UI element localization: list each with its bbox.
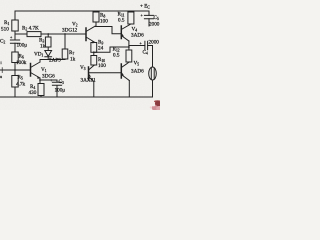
node R9 bottom junction bbox=[93, 51, 95, 53]
capacitor C5 bbox=[144, 15, 153, 18]
svg-text:100μ: 100μ bbox=[17, 43, 28, 49]
resistor R1 bbox=[12, 20, 18, 31]
transistor V2 bbox=[85, 28, 87, 41]
svg-text:100k: 100k bbox=[16, 60, 27, 66]
wire R8 bottom to V2 collector bbox=[95, 22, 97, 27]
wire R12 bottom to V5 collector bbox=[128, 61, 130, 63]
wire top-left corner down to R1 bbox=[14, 11, 16, 20]
speaker BL bbox=[149, 67, 157, 80]
wire V5 emitter to ground bbox=[128, 81, 130, 98]
wire R7 top lead bbox=[64, 34, 66, 49]
wire V4 emitter riser bbox=[128, 41, 130, 50]
wire V1 emitter to R4 bbox=[39, 78, 41, 84]
resistor R7 bbox=[62, 49, 68, 59]
wire R2 to V2 base bbox=[41, 33, 86, 35]
wire R9 bottom node bbox=[94, 47, 129, 52]
transistor V3 bbox=[88, 67, 90, 80]
wire top rail bbox=[15, 10, 149, 12]
resistor R2 bbox=[27, 32, 41, 37]
wire R10 bottom to V3 collector bbox=[93, 64, 95, 67]
wire R10 top lead bbox=[93, 52, 95, 55]
svg-text:2AP9: 2AP9 bbox=[49, 58, 61, 64]
diode VD1 bbox=[45, 51, 52, 57]
wire C5 bottom stub bbox=[148, 19, 150, 26]
svg-text:3AX81: 3AX81 bbox=[81, 78, 97, 84]
capacitor C3 bbox=[52, 80, 61, 97]
wire C4 to speaker rail bbox=[148, 46, 153, 68]
wire input bbox=[0, 69, 31, 71]
resistor R10 bbox=[91, 56, 97, 66]
node emitter junction bbox=[39, 79, 41, 81]
node R7 junction bbox=[64, 33, 66, 35]
capacitor C2 bbox=[10, 40, 19, 43]
resistor R5 bbox=[12, 76, 18, 88]
svg-text:0.5: 0.5 bbox=[113, 53, 120, 59]
resistor R3 bbox=[45, 37, 51, 47]
svg-text:3DG12: 3DG12 bbox=[62, 28, 78, 34]
wire V3 base to V5 base bbox=[89, 72, 122, 74]
watermark red logo bbox=[150, 100, 162, 111]
svg-text:510: 510 bbox=[1, 27, 9, 33]
wire R6 to input node bbox=[14, 63, 16, 71]
wire output to C4 bbox=[129, 45, 145, 47]
svg-text:430: 430 bbox=[29, 90, 37, 96]
svg-text:100: 100 bbox=[98, 63, 106, 69]
wire V2 collector to V4 base bbox=[96, 27, 122, 34]
capacitor C4 bbox=[145, 41, 148, 50]
wire input node to R5 bbox=[14, 70, 16, 76]
resistor R9 bbox=[91, 43, 97, 53]
resistor R11 bbox=[128, 12, 134, 24]
wire V1 collector riser bbox=[39, 60, 41, 63]
wire R4 to ground bbox=[40, 96, 42, 98]
svg-text:4.7k: 4.7k bbox=[16, 82, 25, 88]
paper background bbox=[0, 0, 160, 110]
wire VD1 to node B bbox=[47, 57, 49, 60]
wire R3 to VD1 bbox=[47, 47, 49, 51]
resistor R6 bbox=[12, 52, 18, 63]
svg-text:R2 4.7K: R2 4.7K bbox=[22, 26, 39, 32]
svg-text:0.5: 0.5 bbox=[118, 18, 125, 24]
node input junction bbox=[14, 69, 16, 71]
svg-text:100μ: 100μ bbox=[55, 88, 66, 94]
wire C2 to R6 bbox=[14, 43, 16, 52]
svg-text:u: u bbox=[0, 74, 2, 79]
node output junction bbox=[128, 46, 130, 48]
wire node A branch to R2 bbox=[15, 33, 27, 35]
transistor V4 bbox=[120, 26, 122, 39]
resistor R4 bbox=[38, 84, 44, 96]
transistor V5 bbox=[120, 64, 122, 78]
wire R8 top bbox=[95, 11, 97, 12]
wire V3 emitter to ground bbox=[93, 82, 95, 98]
svg-text:2000: 2000 bbox=[149, 40, 160, 46]
wire speaker to ground bbox=[152, 80, 154, 97]
wire C5 corner from top rail bbox=[148, 11, 150, 15]
wire node B horizontal bbox=[40, 59, 65, 61]
wire R5 to ground rail bbox=[14, 87, 16, 97]
svg-text:3DG6: 3DG6 bbox=[42, 74, 55, 80]
svg-text:3AD6: 3AD6 bbox=[131, 33, 144, 39]
node R3 junction bbox=[47, 33, 49, 35]
svg-text:100: 100 bbox=[100, 19, 108, 25]
wire R11 top bbox=[130, 11, 132, 12]
wire ground rail bbox=[0, 96, 153, 98]
svg-text:1k: 1k bbox=[40, 44, 46, 50]
svg-text:2000: 2000 bbox=[149, 22, 160, 28]
wire R1 bottom to C2 bbox=[14, 31, 16, 40]
svg-text:1k: 1k bbox=[70, 57, 76, 63]
svg-text:24: 24 bbox=[98, 46, 104, 52]
wire emitter node to C3 bbox=[40, 79, 57, 81]
wire R3 top lead bbox=[47, 34, 49, 37]
resistor R12 bbox=[126, 50, 132, 62]
transistor V1 bbox=[30, 64, 32, 77]
resistor R8 bbox=[93, 12, 99, 22]
terminal input tick bbox=[1, 68, 3, 73]
svg-text:3AD6: 3AD6 bbox=[131, 69, 144, 75]
